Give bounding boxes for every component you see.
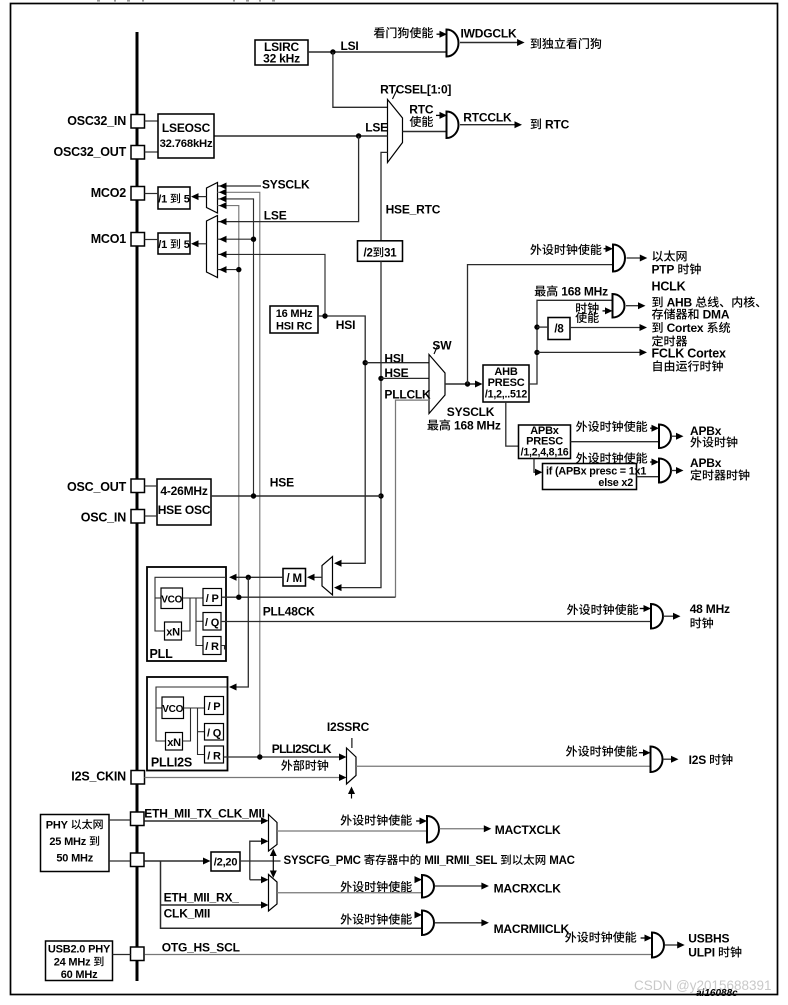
wire MACTXCLK output — [440, 828, 488, 830]
gate USBHS ULPI gate — [652, 933, 664, 958]
svg-text:31: 31 — [384, 248, 397, 260]
bus vertical line — [136, 32, 139, 981]
wire APBx peripheral output — [671, 435, 679, 437]
wire PLL internal input — [155, 577, 226, 631]
gate IWDG clock gate — [447, 30, 459, 57]
wire PLLCLK from /P — [222, 596, 396, 598]
mux M input select — [322, 557, 333, 596]
divider MCO1 /1 to 5 box — [158, 233, 190, 254]
svg-text:RTCCLK: RTCCLK — [463, 111, 512, 125]
svg-text:VCO: VCO — [161, 595, 182, 606]
svg-text:/ R: / R — [205, 641, 219, 653]
node HSE line junction — [378, 493, 383, 498]
svg-text:PLL48CK: PLL48CK — [263, 605, 315, 619]
gate HCLK clock gate — [613, 294, 625, 318]
arrow MACRMII enable — [416, 914, 417, 916]
svg-text:/ P: / P — [208, 701, 221, 713]
label peripheral clock enable 48MHz — [567, 604, 578, 615]
pin square I2S_CKIN — [131, 771, 145, 785]
node HCLK to /8 junction — [534, 324, 539, 329]
prescaler APBx PRESC box — [519, 425, 571, 459]
svg-text:HSE OSC: HSE OSC — [158, 503, 211, 517]
arrow MACTX enable — [416, 820, 422, 822]
svg-text:60 MHz: 60 MHz — [61, 969, 98, 981]
label peripheral clock enable APB1 — [576, 421, 587, 432]
label external clock — [281, 760, 292, 771]
mux RTCSEL select tick — [393, 89, 398, 100]
wire /M output into PLL — [231, 576, 284, 578]
svg-text:/1: /1 — [158, 194, 167, 206]
gate MACRXCLK gate — [422, 875, 434, 898]
svg-text:MCO2: MCO2 — [91, 186, 127, 200]
pin square MCO1 — [131, 233, 145, 247]
oscillator 16 MHz HSI RC box — [270, 306, 318, 333]
svg-text:LSE: LSE — [365, 121, 388, 135]
mux RTCSEL — [388, 100, 403, 163]
pin square OSC_IN — [131, 510, 145, 524]
node PLLCLK to MCO junction — [236, 595, 241, 600]
wire PLLI2S internal input — [156, 687, 227, 741]
svg-text:/ Q: / Q — [205, 617, 220, 629]
gate I2S clock gate — [651, 747, 663, 773]
wire LSE to MCO1 input1 — [218, 136, 359, 222]
svg-text:OSC_OUT: OSC_OUT — [67, 480, 127, 494]
svg-text:HSI: HSI — [384, 351, 403, 365]
label max 168 MHz at HCLK — [535, 286, 546, 297]
svg-text:32.768kHz: 32.768kHz — [160, 138, 213, 150]
svg-text:HCLK: HCLK — [652, 280, 686, 294]
svg-text:PLL: PLL — [150, 647, 174, 661]
wire /8 output to Cortex system timer — [570, 327, 643, 329]
wire RX mux output — [277, 892, 422, 894]
arrow APB2 enable — [650, 461, 654, 463]
svg-text:FCLK Cortex: FCLK Cortex — [652, 347, 726, 361]
wire PLLI2S VCO output and feedback — [184, 707, 205, 709]
svg-text:48 MHz: 48 MHz — [690, 602, 730, 616]
svg-text:MACRXCLK: MACRXCLK — [494, 882, 562, 896]
svg-text:SYSCLK: SYSCLK — [262, 178, 310, 192]
svg-text:25 MHz: 25 MHz — [49, 836, 86, 848]
mux SW system clock switch — [429, 355, 445, 414]
svg-text:ai16088c: ai16088c — [696, 988, 738, 999]
svg-text:OSC32_IN: OSC32_IN — [67, 114, 126, 128]
node HSI junction at box — [322, 313, 327, 318]
label peripheral clock enable MACRMII — [341, 913, 352, 924]
wire MCO1 in4 PLLCLK branch — [218, 269, 239, 271]
arrow USBHS enable — [641, 937, 648, 939]
node LSI junction — [330, 49, 335, 54]
svg-text:SYSCLK: SYSCLK — [447, 405, 495, 419]
wire OSC32_IN pin to LSEOSC — [145, 120, 159, 122]
gate ethernet PTP clock gate — [613, 245, 625, 272]
pin square USB pin — [131, 947, 145, 961]
label watchdog enable — [374, 27, 385, 38]
wire /2,20 to RX mux input1 — [250, 879, 265, 881]
svg-text:PRESC: PRESC — [488, 377, 525, 389]
svg-text:Cortex: Cortex — [667, 321, 704, 335]
divider PLLI2S /R box — [205, 746, 224, 763]
node SYSCLK junction — [465, 381, 470, 386]
divider PLLI2S /Q box — [205, 724, 224, 741]
svg-text:HSI RC: HSI RC — [276, 321, 312, 333]
block PLLI2S xN box — [166, 733, 183, 751]
wire MCO1 output to divider — [193, 243, 207, 245]
wire MCO1 divider to pin — [145, 239, 159, 241]
divider PLLI2S /P box — [205, 697, 224, 715]
wire PLL48CK from /Q — [221, 621, 651, 623]
svg-text:IWDGCLK: IWDGCLK — [461, 27, 517, 41]
block PLLI2S outer box — [147, 677, 228, 771]
svg-text:PTP: PTP — [652, 263, 675, 277]
wire FCLK Cortex — [537, 351, 643, 353]
wire AHB to APBx — [506, 402, 519, 446]
node FCLK junction — [534, 350, 539, 355]
wire IWDGCLK output — [460, 42, 519, 44]
gate 48 MHz clock gate — [651, 604, 663, 629]
wire LSE line from LSEOSC — [214, 135, 388, 137]
label peripheral clock enable MACRX — [341, 881, 352, 892]
svg-text:RTCSEL[1:0]: RTCSEL[1:0] — [380, 83, 451, 97]
wire SYSCLK from SW mux — [445, 383, 478, 385]
wire MCO2 in3 HSE vertical — [218, 199, 254, 496]
wire SYSCLK up to PTP gate — [468, 265, 614, 384]
svg-text:I2SSRC: I2SSRC — [327, 720, 370, 734]
wire OSC_IN pin to box — [145, 515, 158, 517]
svg-text:PLLI2S: PLLI2S — [151, 756, 192, 770]
gate APBx peripheral clock gate — [659, 425, 671, 449]
svg-text:24 MHz: 24 MHz — [54, 957, 91, 969]
svg-text:168 MHz: 168 MHz — [454, 419, 501, 433]
node HSE-MCO1 junction — [251, 237, 256, 242]
svg-text:/1,2,4,8,16: /1,2,4,8,16 — [521, 447, 569, 459]
arrow MII_RMII_SEL up into TX mux — [272, 854, 274, 861]
wire if box output — [637, 476, 660, 478]
block PLL VCO box — [161, 588, 183, 609]
cropped text remnant above frame — [97, 0, 100, 2]
divider /2,20 box — [211, 852, 240, 871]
svg-text:ETH_MII_RX_: ETH_MII_RX_ — [164, 890, 240, 904]
wire external clock from I2S_CKIN — [145, 777, 344, 779]
wire AHB output and HCLK vertical — [529, 300, 613, 384]
wire LSI to RTCSEL mux — [333, 52, 388, 107]
wire OTG_HS_SCL — [145, 954, 653, 956]
wire OSC_OUT pin to box — [145, 485, 158, 487]
oscillator HSE OSC box — [157, 479, 211, 525]
label peripheral clock enable APB2 — [576, 452, 587, 463]
svg-text:/8: /8 — [554, 324, 564, 336]
svg-text:/ Q: / Q — [207, 728, 222, 740]
wire USBHS output — [665, 944, 681, 946]
wire HSE into SW mux — [381, 377, 429, 379]
svg-text:OTG_HS_SCL: OTG_HS_SCL — [162, 941, 240, 955]
wire PTP output — [627, 257, 644, 259]
divider PLL /P box — [203, 589, 222, 606]
wire MCO1 in3 HSI branch — [218, 254, 326, 316]
label clock enable at HCLK gate — [576, 302, 587, 313]
arrow MACRX enable — [416, 879, 417, 881]
block PLLI2S VCO box — [162, 697, 184, 719]
node PLL input branch junction — [246, 575, 251, 580]
block PLL xN box — [165, 622, 182, 640]
arrow HCLK enable — [603, 310, 609, 312]
wire MCO2 divider to pin — [145, 193, 159, 195]
label peripheral clock enable I2S — [566, 745, 577, 756]
wire USB box to pin — [113, 954, 131, 956]
arrow APB1 enable — [650, 427, 654, 429]
svg-text:USBHS: USBHS — [688, 931, 729, 945]
divider /8 box — [548, 318, 570, 340]
svg-text:MCO1: MCO1 — [91, 232, 127, 246]
svg-text:xN: xN — [167, 737, 181, 749]
svg-text:MACRMIICLK: MACRMIICLK — [494, 922, 570, 936]
pin square ETH pin RX — [131, 853, 145, 867]
wire 48MHz output — [663, 615, 676, 617]
wire PLLI2SCLK from /R — [224, 756, 344, 758]
svg-text:PHY: PHY — [46, 819, 69, 831]
oscillator LSIRC box — [255, 40, 308, 65]
wire RX pin line to /2,20 — [145, 860, 208, 862]
pin square OSC32_OUT — [131, 146, 145, 160]
wire RTCCLK output — [460, 124, 517, 126]
wire TX mux output — [277, 830, 427, 832]
wire MACRMIICLK output — [435, 922, 486, 924]
svg-text:PLLI2SCLK: PLLI2SCLK — [272, 742, 332, 756]
wire ETH_MII_TX_CLK_MII — [145, 820, 265, 822]
wire PLL input branch down to PLLI2S — [231, 577, 249, 687]
svg-text:HSE: HSE — [270, 476, 294, 490]
label peripheral clock enable MACTX — [341, 814, 352, 825]
svg-text:5: 5 — [184, 239, 190, 251]
wire SYSCLK stub to MCO2 — [218, 185, 262, 187]
svg-text:SYSCFG_PMC: SYSCFG_PMC — [284, 855, 361, 867]
mux ETH TX — [269, 815, 278, 852]
node HSI junction at SW — [363, 360, 368, 365]
svg-text:AHB: AHB — [667, 296, 693, 310]
svg-text:MAC: MAC — [549, 855, 575, 867]
svg-text:/2,20: /2,20 — [214, 857, 238, 869]
svg-text:/1: /1 — [158, 239, 167, 251]
svg-text:RTC: RTC — [545, 118, 570, 132]
svg-text:I2S: I2S — [689, 753, 707, 767]
oscillator LSEOSC box — [158, 114, 214, 158]
wire APBx to if box — [534, 459, 538, 473]
svg-text:5: 5 — [184, 194, 190, 206]
svg-text:DMA: DMA — [703, 308, 730, 322]
block PLL outer box — [147, 567, 226, 661]
node LSE junction — [356, 133, 361, 138]
wire OSC32_OUT pin to LSEOSC — [145, 151, 159, 153]
svg-text:32 kHz: 32 kHz — [263, 52, 300, 66]
svg-text:MII_RMII_SEL: MII_RMII_SEL — [424, 855, 497, 867]
wire /2,20 to TX mux input2 — [250, 841, 265, 880]
wire APBx timer output — [671, 470, 679, 472]
wire RX branch vertical — [161, 861, 423, 928]
wire MACRXCLK output — [435, 885, 486, 887]
svg-text:4-26MHz: 4-26MHz — [160, 484, 207, 498]
wire MCO1 in2 HSE branch — [218, 238, 254, 240]
svg-text:/ M: / M — [287, 573, 302, 585]
svg-text:HSI: HSI — [336, 318, 355, 332]
arrow I2SSRC select below — [351, 790, 353, 799]
wire APBx output to gate — [571, 441, 660, 443]
wire PHY to TX pin — [109, 819, 131, 821]
wire HSE_RTC into RTCSEL — [381, 152, 388, 240]
svg-text:else x2: else x2 — [598, 477, 633, 489]
wire MCO2 output to divider — [193, 196, 207, 198]
svg-text:/1,2,..512: /1,2,..512 — [485, 389, 527, 401]
wire HCLK output — [626, 305, 641, 307]
pin square OSC_OUT — [131, 479, 145, 493]
arrow RTC enable — [436, 114, 442, 116]
svg-text:VCO: VCO — [162, 704, 183, 715]
arrow watchdog enable — [437, 33, 443, 35]
svg-text:HSE: HSE — [384, 366, 408, 380]
pin square MCO2 — [131, 187, 145, 201]
label peripheral clock enable USBHS — [565, 931, 576, 942]
wire /2,20 output — [240, 860, 281, 862]
svg-text:RTC: RTC — [409, 103, 434, 117]
arrow PTP enable — [604, 248, 608, 250]
label to RTC — [531, 119, 541, 130]
wire HSE vertical from divider to SW and M mux — [336, 261, 381, 587]
arrow MII_RMII_SEL down into RX mux — [272, 861, 274, 872]
wire MCO2 in2 PLLI2SCLK vertical — [218, 192, 260, 757]
svg-text:50 MHz: 50 MHz — [56, 853, 93, 865]
wire /8 input — [537, 326, 548, 328]
svg-text:/2: /2 — [364, 248, 373, 260]
svg-text:APBx: APBx — [690, 456, 722, 470]
gate MACRMIICLK gate — [422, 911, 434, 936]
svg-text:/ P: / P — [206, 593, 219, 605]
wire HSE line — [211, 495, 381, 497]
node PLLI2SCLK junction — [257, 754, 262, 759]
wire I2S output — [663, 758, 674, 760]
wire PHY to RX pin — [109, 860, 131, 862]
label to independent watchdog — [531, 38, 541, 49]
prescaler AHB PRESC box — [483, 365, 529, 402]
pin square ETH pin TX — [131, 812, 145, 826]
svg-text:APBx: APBx — [690, 424, 722, 438]
svg-text:LSEOSC: LSEOSC — [162, 121, 211, 135]
arrow I2S enable — [639, 752, 646, 754]
divider PLL /R box — [203, 637, 221, 655]
gate APBx timer clock gate — [659, 459, 671, 483]
svg-text:if (APBx presc = 1x1: if (APBx presc = 1x1 — [546, 466, 646, 478]
wire PLLCLK into SW mux — [396, 400, 430, 597]
svg-text:CLK_MII: CLK_MII — [164, 906, 211, 920]
label max 168 MHz below SYSCLK — [427, 420, 438, 431]
svg-text:MACTXCLK: MACTXCLK — [495, 823, 561, 837]
svg-text:ULPI: ULPI — [688, 946, 715, 960]
node HSE-MCO junction — [251, 493, 256, 498]
divider /M box — [283, 569, 306, 587]
wire I2S mux output — [356, 765, 651, 767]
svg-text:LSE: LSE — [264, 209, 287, 223]
divider /2 to 31 box — [358, 241, 403, 261]
svg-text:PLLCLK: PLLCLK — [384, 388, 431, 402]
wire PLL VCO output and feedback — [183, 597, 204, 599]
svg-text:LSI: LSI — [341, 39, 359, 53]
label ethernet PTP clock — [653, 251, 664, 262]
wire HSI output — [318, 316, 365, 563]
mux MCO1 — [207, 216, 218, 278]
mux I2SSRC select tick — [351, 738, 353, 748]
wire MCO2 in4 PLLCLK vertical — [218, 206, 239, 598]
svg-text:OSC32_OUT: OSC32_OUT — [54, 145, 127, 159]
svg-text:USB2.0 PHY: USB2.0 PHY — [48, 944, 111, 956]
svg-text:I2S_CKIN: I2S_CKIN — [71, 769, 126, 783]
divider MCO2 /1 to 5 box — [158, 187, 190, 209]
svg-text:168 MHz: 168 MHz — [561, 285, 608, 299]
pin square OSC32_IN — [131, 115, 145, 129]
arrow 48MHz enable — [640, 608, 647, 610]
wire PLL /R stub — [221, 646, 225, 650]
svg-text:/ R: / R — [207, 751, 221, 763]
svg-text:xN: xN — [166, 627, 180, 639]
wire ETH_MII_RX_CLK_MII into RX mux — [161, 904, 265, 906]
mux I2SSRC — [347, 748, 357, 784]
node HSE at SW input — [378, 376, 383, 381]
gate RTC clock gate — [447, 112, 459, 139]
gate MACTXCLK gate — [427, 816, 439, 843]
svg-text:ETH_MII_TX_CLK_MII: ETH_MII_TX_CLK_MII — [144, 807, 264, 821]
box USB2.0 PHY — [46, 941, 113, 981]
svg-text:16 MHz: 16 MHz — [276, 308, 313, 320]
svg-text:HSE_RTC: HSE_RTC — [386, 203, 441, 217]
mux MCO2 — [207, 183, 218, 214]
wire RTCSEL output — [403, 131, 447, 133]
wire LSI — [308, 51, 447, 53]
divider PLL /Q box — [203, 613, 221, 631]
svg-text:OSC_IN: OSC_IN — [81, 510, 127, 524]
node PLLCLK-MCO1 junction — [236, 267, 241, 272]
wire M mux output to /M — [309, 576, 322, 578]
mux SW select tick — [434, 345, 438, 354]
box APBx presc condition — [543, 464, 637, 490]
label peripheral clock enable PTP — [530, 244, 541, 255]
wire HSI into SW mux — [365, 362, 429, 364]
box PHY ethernet — [41, 815, 110, 872]
mux ETH RX — [269, 875, 278, 912]
